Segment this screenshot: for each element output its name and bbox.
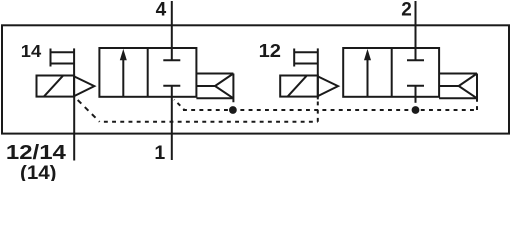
port 1 line	[171, 97, 173, 160]
valve V1 solenoid pilot stem	[73, 48, 75, 96]
valve V2 air spring return	[439, 74, 477, 101]
svg-text:12/14: 12/14	[6, 142, 67, 164]
valve V1 flow arrow (open path)	[120, 49, 127, 97]
valve V1 body	[99, 48, 196, 97]
valve V2 flow arrow (open path)	[364, 49, 371, 97]
valve V1 pilot solenoid manual override	[51, 49, 75, 67]
pilot line (dashed) riser to V2 solenoid	[317, 100, 319, 121]
svg-text:4: 4	[156, 0, 167, 21]
valve V1 blocked port T bottom	[163, 86, 180, 97]
valve V1 pilot amplifier triangle	[74, 76, 94, 96]
valve V2 blocked port T top	[407, 48, 424, 60]
valve V2 pilot solenoid manual override	[294, 49, 318, 67]
port 12/14 external pilot line	[73, 97, 75, 161]
valve V2 bottom port stub	[415, 97, 417, 103]
valve V2 solenoid pilot stem	[317, 48, 319, 99]
port 2 line	[415, 1, 417, 48]
pilot line (dashed) upper horizontal	[183, 109, 477, 111]
svg-text:2: 2	[401, 0, 412, 21]
junction dot at V1 spring pilot	[229, 106, 237, 114]
pilot line (dashed) from port 1 riser	[174, 100, 184, 110]
valve V2 pilot amplifier triangle	[318, 76, 338, 96]
valve V1 solenoid coil Y1	[37, 76, 75, 97]
valve V2 blocked port T bottom	[407, 86, 424, 97]
junction dot at V2 bottom port	[412, 106, 420, 114]
valve V2 body	[343, 48, 439, 97]
svg-text:(14): (14)	[20, 162, 57, 181]
svg-text:14: 14	[21, 41, 42, 61]
valve V1 air spring return	[196, 74, 233, 103]
manifold frame	[2, 25, 509, 133]
svg-text:12: 12	[259, 40, 281, 61]
port 4 line	[171, 1, 173, 48]
valve V2 solenoid coil Y2	[280, 76, 318, 97]
svg-text:1: 1	[154, 142, 165, 164]
pilot line (dashed) lower horizontal	[100, 121, 318, 123]
pilot line (dashed) riser to V2 spring	[476, 100, 478, 110]
pilot line (dashed) from V1 solenoid diagonal	[76, 98, 100, 122]
valve V1 blocked port T top	[163, 48, 180, 60]
